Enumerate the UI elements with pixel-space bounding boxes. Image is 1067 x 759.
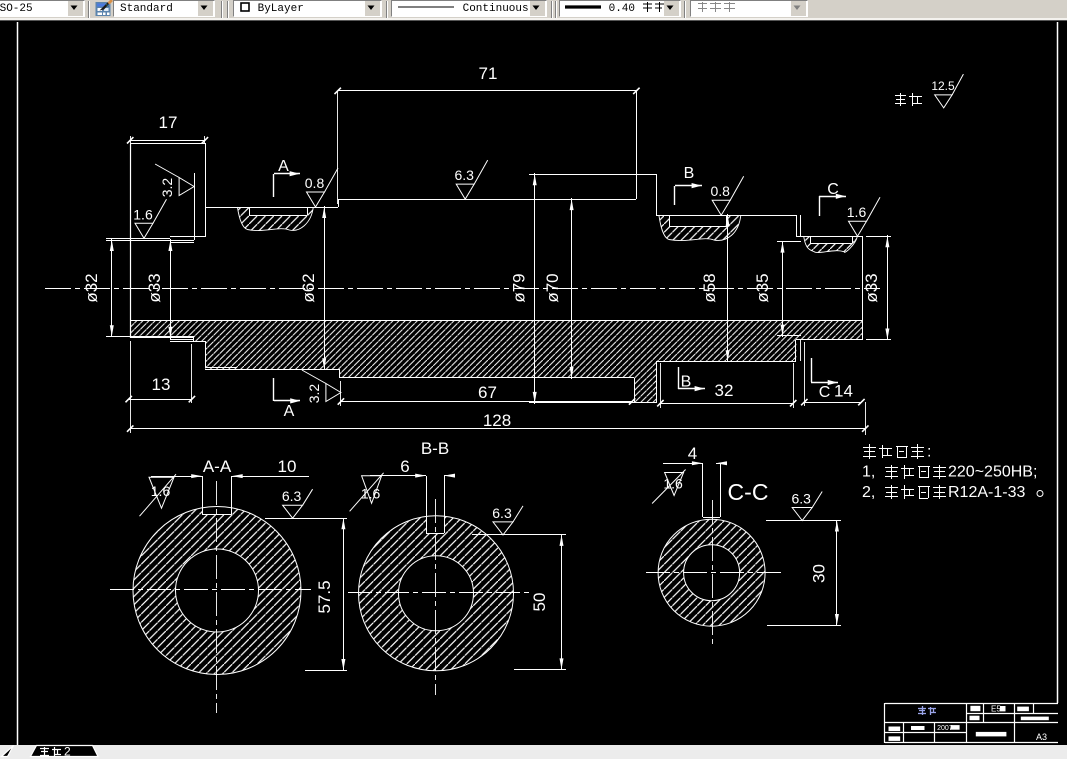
- svg-text:A: A: [278, 158, 289, 175]
- svg-text:13: 13: [152, 375, 171, 394]
- svg-text:6: 6: [400, 457, 409, 476]
- svg-text:ø32: ø32: [82, 273, 101, 302]
- svg-text:32: 32: [715, 381, 734, 400]
- svg-text:2: 2: [64, 745, 71, 759]
- svg-text:220~250HB;: 220~250HB;: [948, 464, 1037, 481]
- svg-text:ø33: ø33: [862, 273, 881, 302]
- svg-text:6.3: 6.3: [454, 167, 474, 183]
- svg-text:ø33: ø33: [145, 273, 164, 302]
- svg-text:ø58: ø58: [700, 273, 719, 302]
- svg-text:71: 71: [479, 64, 498, 83]
- svg-text:6.3: 6.3: [791, 491, 811, 507]
- svg-text:14: 14: [834, 382, 853, 401]
- svg-text:128: 128: [483, 411, 511, 430]
- svg-text:6.3: 6.3: [282, 488, 302, 504]
- svg-text:ø62: ø62: [299, 273, 318, 302]
- svg-text:A: A: [284, 403, 295, 420]
- svg-text:57.5: 57.5: [315, 580, 334, 613]
- svg-text:1.6: 1.6: [847, 204, 867, 220]
- svg-text:B-B: B-B: [421, 439, 449, 458]
- svg-text::: :: [927, 443, 931, 460]
- svg-text:3.2: 3.2: [306, 384, 322, 404]
- svg-text:1.6: 1.6: [663, 476, 683, 492]
- svg-text:17: 17: [159, 113, 178, 132]
- svg-text:4: 4: [688, 444, 697, 463]
- svg-text:ø70: ø70: [543, 273, 562, 302]
- svg-text:0.8: 0.8: [710, 183, 730, 199]
- svg-text:1.6: 1.6: [361, 485, 381, 501]
- svg-text:C: C: [819, 384, 831, 401]
- svg-text:3.2: 3.2: [159, 178, 175, 198]
- svg-text:10: 10: [278, 457, 297, 476]
- svg-text:1,: 1,: [862, 464, 875, 481]
- svg-text:6.3: 6.3: [492, 505, 512, 521]
- svg-text:1.6: 1.6: [133, 206, 153, 222]
- svg-text:ø35: ø35: [753, 273, 772, 302]
- svg-text:B: B: [684, 165, 695, 182]
- svg-text:A3: A3: [1036, 732, 1047, 742]
- svg-text:ø79: ø79: [510, 273, 529, 302]
- svg-text:C: C: [827, 181, 839, 198]
- svg-text:B: B: [681, 374, 692, 391]
- svg-text:0.8: 0.8: [305, 175, 325, 191]
- svg-text:2,: 2,: [862, 484, 875, 501]
- svg-text:2007: 2007: [937, 725, 953, 732]
- svg-text:30: 30: [810, 564, 829, 583]
- svg-text:C-C: C-C: [728, 479, 769, 505]
- svg-text:50: 50: [530, 593, 549, 612]
- svg-text:A-A: A-A: [203, 457, 232, 476]
- svg-text:67: 67: [478, 383, 497, 402]
- svg-text:1.6: 1.6: [151, 483, 171, 499]
- svg-text:12.5: 12.5: [931, 79, 955, 93]
- svg-text:E5: E5: [991, 705, 1001, 714]
- svg-text:R12A-1-33: R12A-1-33: [948, 484, 1025, 501]
